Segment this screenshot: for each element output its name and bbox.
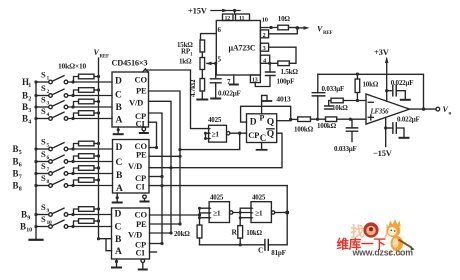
power +3V supply <box>374 47 390 57</box>
svg-text:B: B <box>21 209 27 219</box>
svg-text:5: 5 <box>46 142 49 148</box>
svg-text:S: S <box>41 94 46 104</box>
wire U3 V/D stub <box>149 167 171 169</box>
svg-text:10: 10 <box>262 17 268 24</box>
wire to op-amp plus input <box>337 118 366 120</box>
svg-text:0.033μF: 0.033μF <box>334 145 357 153</box>
svg-text:B: B <box>12 168 18 178</box>
wire U4 PE stub <box>149 223 180 225</box>
svg-text:6: 6 <box>46 155 49 161</box>
wire pin3 to 1.5k <box>269 47 296 63</box>
ground cap pin5 <box>211 97 220 99</box>
svg-text:4025: 4025 <box>252 193 266 201</box>
svg-text:CO: CO <box>135 74 148 84</box>
resistor 10k row 4 <box>74 113 79 119</box>
gate U8 input marks <box>251 207 253 219</box>
wire U6 output to 4013 CP <box>230 132 247 134</box>
wire U2 CP chain vertical <box>148 113 162 244</box>
svg-text:B: B <box>22 102 28 112</box>
wire row 7 to counter input <box>68 172 113 174</box>
resistor 10k row 10 <box>73 221 78 227</box>
wire U4 CP stub <box>149 242 162 244</box>
regulator U1 uA723C pin 12 box <box>223 14 234 21</box>
svg-text:+3V: +3V <box>374 47 390 57</box>
node B9 input terminal <box>34 213 37 216</box>
svg-text:1: 1 <box>47 75 50 81</box>
resistor 1.5k <box>278 61 290 66</box>
svg-text:S: S <box>41 136 46 146</box>
svg-text:www.dzsc.com: www.dzsc.com <box>351 248 413 258</box>
wire U3 CP stub <box>149 175 162 177</box>
svg-text:P: P <box>260 114 265 123</box>
ground U2 left <box>117 127 119 133</box>
wire V/D from 4013 Qbar <box>171 133 282 168</box>
svg-text:B: B <box>116 171 123 181</box>
svg-text:100pF: 100pF <box>277 78 295 86</box>
switch S10 <box>38 225 49 227</box>
resistor 10k row 7 <box>73 168 78 174</box>
counter U4 CD4516 box 3 <box>111 208 149 259</box>
pin 7 U1 ground <box>233 75 235 84</box>
gate U6 input marks <box>209 128 211 140</box>
svg-text:S: S <box>41 173 46 183</box>
svg-text:4: 4 <box>47 112 50 118</box>
ground U3 right <box>143 195 147 199</box>
wire row 8 to counter input <box>68 184 113 186</box>
potentiometer RP1 1k <box>201 52 203 58</box>
svg-text:2: 2 <box>28 96 31 102</box>
node filter mid <box>311 118 326 120</box>
wire oscillator feedback vertical <box>286 186 288 245</box>
wire U3 CI row to oscillator <box>149 185 287 187</box>
pin 10 U1 <box>262 17 268 24</box>
wire op-amp output <box>410 108 437 110</box>
resistor 10k row 5 <box>73 143 78 149</box>
svg-text:3: 3 <box>28 108 31 114</box>
node U2 carry caret <box>143 69 148 72</box>
wire pin4 node <box>268 62 271 65</box>
wire U7 inputs tie <box>199 208 209 225</box>
wire U4 unused B A inputs tie <box>98 239 111 251</box>
wire row 1 to counter input <box>68 81 112 83</box>
switch S7 <box>38 172 49 174</box>
gate U6 4025 NOR middle <box>208 116 222 124</box>
resistor 4.7k <box>201 69 203 78</box>
svg-text:3: 3 <box>47 100 50 106</box>
capacitor 0.022uF supply decoupling bottom <box>386 127 393 129</box>
node VREF output <box>289 27 298 29</box>
svg-text:10kΩ: 10kΩ <box>332 104 348 112</box>
gate U6 output bubble <box>227 131 230 134</box>
ground decoupling bottom <box>400 137 409 139</box>
wire U2 V/D chain vertical <box>148 101 171 233</box>
svg-text:A: A <box>116 115 123 125</box>
node B2 input terminal <box>34 94 37 97</box>
svg-text:S: S <box>41 83 46 93</box>
svg-text:20kΩ: 20kΩ <box>174 230 190 238</box>
capacitor C 100pF <box>266 72 276 76</box>
svg-text:8: 8 <box>19 186 22 192</box>
counter U2 CD4516 box 1 <box>112 72 149 127</box>
svg-text:PE: PE <box>136 219 147 229</box>
node Vo output terminal <box>436 107 440 111</box>
wire feedback rail <box>318 74 424 109</box>
svg-text:B: B <box>22 90 28 100</box>
svg-text:5: 5 <box>19 150 22 156</box>
svg-text:B: B <box>12 144 18 154</box>
svg-text:≥1: ≥1 <box>255 209 263 218</box>
svg-text:D: D <box>115 76 122 86</box>
wire U5 Q output <box>277 120 291 122</box>
svg-text:2: 2 <box>263 32 266 39</box>
wire U2 CO to gate U6 input <box>145 70 208 129</box>
svg-text:S: S <box>41 214 46 224</box>
svg-text:C: C <box>258 246 263 255</box>
switch S3 <box>38 106 49 108</box>
svg-text:D: D <box>114 209 121 219</box>
ground U5 set input <box>262 95 267 113</box>
wire row 9 to counter input <box>68 213 112 215</box>
resistor 100k first <box>291 118 298 120</box>
switch S5 <box>38 148 49 150</box>
ground bus rail left <box>35 82 37 239</box>
svg-text:PE: PE <box>136 85 147 95</box>
svg-text:V/D: V/D <box>128 161 142 171</box>
switch S6 <box>38 160 49 162</box>
capacitor C 81pF <box>265 240 268 251</box>
node VREF input bus label <box>94 48 110 60</box>
svg-text:10: 10 <box>46 220 52 226</box>
svg-text:o: o <box>449 111 452 117</box>
oscillator gate U8 4025 <box>252 193 266 201</box>
wire pin13 to 100pF <box>255 76 270 87</box>
svg-text:100kΩ: 100kΩ <box>317 122 337 130</box>
counter U3 CD4516 box 2 <box>112 139 149 193</box>
wire U7 out to U8 in <box>233 208 251 225</box>
svg-text:CP: CP <box>248 130 259 140</box>
wire U4 V/D stub <box>149 232 171 234</box>
node B5 input terminal <box>34 147 37 150</box>
wire row 2 to counter input <box>68 94 112 96</box>
10k x10 resistor array value label <box>58 61 87 70</box>
wire PE feed from gate U6 output <box>180 133 240 149</box>
svg-text:1kΩ: 1kΩ <box>179 57 192 65</box>
svg-text:Q: Q <box>267 130 274 140</box>
svg-text:LF356: LF356 <box>370 109 390 116</box>
resistor 10k row 9 <box>73 209 78 215</box>
svg-text:B: B <box>20 221 26 231</box>
svg-text:0.022μF: 0.022μF <box>218 89 241 97</box>
wire U2 PE chain vertical <box>148 91 180 224</box>
wire pin10 output <box>260 27 277 29</box>
svg-text:S: S <box>41 149 46 159</box>
svg-text:S: S <box>41 202 46 212</box>
gate U7 input marks <box>209 207 211 219</box>
resistor 10k row 6 <box>73 156 78 162</box>
svg-text:8: 8 <box>46 179 49 185</box>
wire U3 PE stub <box>149 155 180 157</box>
svg-text:B: B <box>116 103 123 113</box>
svg-text:1.5kΩ: 1.5kΩ <box>281 68 299 76</box>
svg-text:2: 2 <box>47 89 50 95</box>
node B1 input terminal <box>34 80 37 83</box>
svg-text:CO: CO <box>134 209 147 219</box>
resistor 10k row 8 <box>73 180 78 186</box>
svg-text:9: 9 <box>27 215 30 221</box>
wire U2 CI to U3 CO <box>148 122 156 147</box>
pin 6 U1 <box>218 26 222 34</box>
gate U8 output bubble <box>271 211 274 214</box>
svg-text:D: D <box>250 118 257 128</box>
switch S4 <box>38 117 49 119</box>
svg-text:V/D: V/D <box>128 229 142 239</box>
switch S9 <box>38 213 49 215</box>
resistor 10k row 3 <box>74 101 79 107</box>
resistor 100k second <box>326 117 337 122</box>
pin 13 U1 box <box>250 75 260 83</box>
svg-text:10Ω: 10Ω <box>278 15 291 23</box>
wire minus input row <box>345 100 366 102</box>
svg-text:B: B <box>22 113 28 123</box>
svg-text:C: C <box>260 133 266 143</box>
node B6 input terminal <box>34 160 37 163</box>
capacitor 0.022uF at pin 5 <box>215 63 217 78</box>
svg-text:PE: PE <box>136 149 147 159</box>
svg-text:CI: CI <box>135 181 145 191</box>
svg-text:S: S <box>41 161 46 171</box>
resistor R 10k <box>238 226 243 239</box>
wire row 6 to counter input <box>68 160 113 162</box>
gate U6 inputs tie <box>206 133 209 138</box>
svg-text:REF: REF <box>323 31 333 36</box>
wire U5 Q to D feedback loop <box>241 106 291 122</box>
svg-text:10kΩ: 10kΩ <box>246 229 262 237</box>
svg-text:C: C <box>115 90 122 100</box>
ground U3 left <box>116 193 118 201</box>
wire +15V feed <box>211 9 240 11</box>
regulator U1 uA723C body <box>216 20 260 75</box>
power +15V supply <box>188 5 208 15</box>
svg-text:0.022μF: 0.022μF <box>397 116 420 124</box>
svg-text:C: C <box>115 158 122 168</box>
svg-text:−15V: −15V <box>373 148 393 158</box>
svg-text:CD4516×3: CD4516×3 <box>112 58 148 67</box>
svg-text:9: 9 <box>46 208 49 214</box>
resistor 10k horizontal with series cap <box>331 98 343 103</box>
svg-text:CI: CI <box>135 247 145 257</box>
resistor 15k <box>200 40 205 52</box>
wire pin6 to divider <box>201 34 217 40</box>
ground divider chain <box>201 91 203 99</box>
node B7 input terminal <box>34 172 37 175</box>
svg-text:D: D <box>115 143 122 153</box>
wire row 10 to counter input <box>68 225 112 227</box>
switch S2 <box>38 94 49 96</box>
svg-text:≥1: ≥1 <box>213 208 221 217</box>
switch S1 <box>38 81 49 83</box>
pin 3 U1 box <box>260 43 268 51</box>
regulator U1 uA723C pin 11 box <box>236 14 250 21</box>
svg-text:R: R <box>231 228 237 237</box>
svg-text:4: 4 <box>28 119 31 125</box>
pin 2 U1 box <box>260 30 268 38</box>
svg-text:V/D: V/D <box>129 97 143 107</box>
svg-text:4.7kΩ: 4.7kΩ <box>189 79 197 97</box>
switch S8 <box>38 184 49 186</box>
power -15V supply <box>385 117 387 146</box>
ground U4 left <box>115 259 117 267</box>
svg-text:+15V: +15V <box>188 5 208 15</box>
node B3 input terminal <box>34 105 37 108</box>
svg-text:81pF: 81pF <box>271 249 285 257</box>
ground U2 right <box>142 127 146 131</box>
flipflop U5 4013 <box>276 95 291 104</box>
oscillator gate U7 4025 <box>210 193 224 201</box>
wire row 4 to counter input <box>68 117 112 119</box>
wire U4 CI stub <box>149 251 156 253</box>
svg-text:A: A <box>115 247 122 257</box>
svg-text:1: 1 <box>28 83 31 89</box>
svg-text:10: 10 <box>26 227 32 233</box>
wire row 3 to counter input <box>68 106 112 108</box>
svg-text:0.033μF: 0.033μF <box>322 85 345 93</box>
svg-text:10kΩ: 10kΩ <box>363 81 379 89</box>
svg-text:4013: 4013 <box>276 95 291 104</box>
svg-text:≥1: ≥1 <box>212 129 220 138</box>
node B8 input terminal <box>34 184 37 187</box>
svg-text:REF: REF <box>100 54 110 59</box>
svg-text:B: B <box>12 180 18 190</box>
node oscillator output <box>275 212 287 214</box>
svg-text:B: B <box>12 156 18 166</box>
svg-text:B: B <box>115 235 122 245</box>
capacitor 0.022uF supply decoupling top <box>387 90 393 92</box>
wire U3 CO stub <box>149 146 157 148</box>
counter U2 label CD4516x3 <box>112 58 148 67</box>
op-amp plus mark <box>368 115 373 120</box>
pin 4 U1 box <box>260 55 269 63</box>
node B4 input terminal <box>34 117 37 120</box>
wire VREF vertical bus <box>97 58 99 239</box>
ground decoupling top <box>401 99 410 101</box>
wire pin2 to VREF <box>269 30 298 34</box>
watermark dzsc logo <box>336 219 414 258</box>
svg-text:4025: 4025 <box>208 116 222 124</box>
svg-text:10kΩ×10: 10kΩ×10 <box>58 61 87 70</box>
op-amp minus mark <box>368 101 373 103</box>
op-amp A1 LF356 <box>366 94 410 124</box>
ground U5 clear input <box>261 143 263 149</box>
svg-text:6: 6 <box>19 162 22 168</box>
svg-text:C: C <box>114 222 121 232</box>
svg-text:0.022μF: 0.022μF <box>391 79 414 87</box>
wire U4 CO to oscillator gate <box>149 214 199 216</box>
resistor 10 ohm <box>278 25 289 30</box>
svg-text:4025: 4025 <box>210 193 224 201</box>
wire oscillator bottom rail <box>199 244 287 246</box>
capacitor 0.033uF at plus input <box>351 119 353 128</box>
svg-text:7: 7 <box>19 174 22 180</box>
resistor 10k feedback vertical <box>355 79 360 93</box>
gate U7 output bubble <box>229 211 232 214</box>
resistor 10k row 2 <box>74 90 79 96</box>
svg-text:S: S <box>41 69 46 79</box>
svg-text:Q: Q <box>267 118 274 128</box>
svg-text:100kΩ: 100kΩ <box>294 126 314 134</box>
resistor 10k row 1 <box>74 76 79 82</box>
wire row 5 to counter input <box>68 148 113 150</box>
ground U4 right <box>141 259 145 263</box>
pin 5 U1 wiper <box>218 55 222 63</box>
capacitor 0.033uF to feedback rail <box>317 96 319 119</box>
resistor 20k <box>197 225 202 238</box>
svg-text:7: 7 <box>46 167 49 173</box>
svg-text:μA723C: μA723C <box>229 43 256 52</box>
node B10 input terminal <box>34 225 37 228</box>
svg-text:S: S <box>41 106 46 116</box>
